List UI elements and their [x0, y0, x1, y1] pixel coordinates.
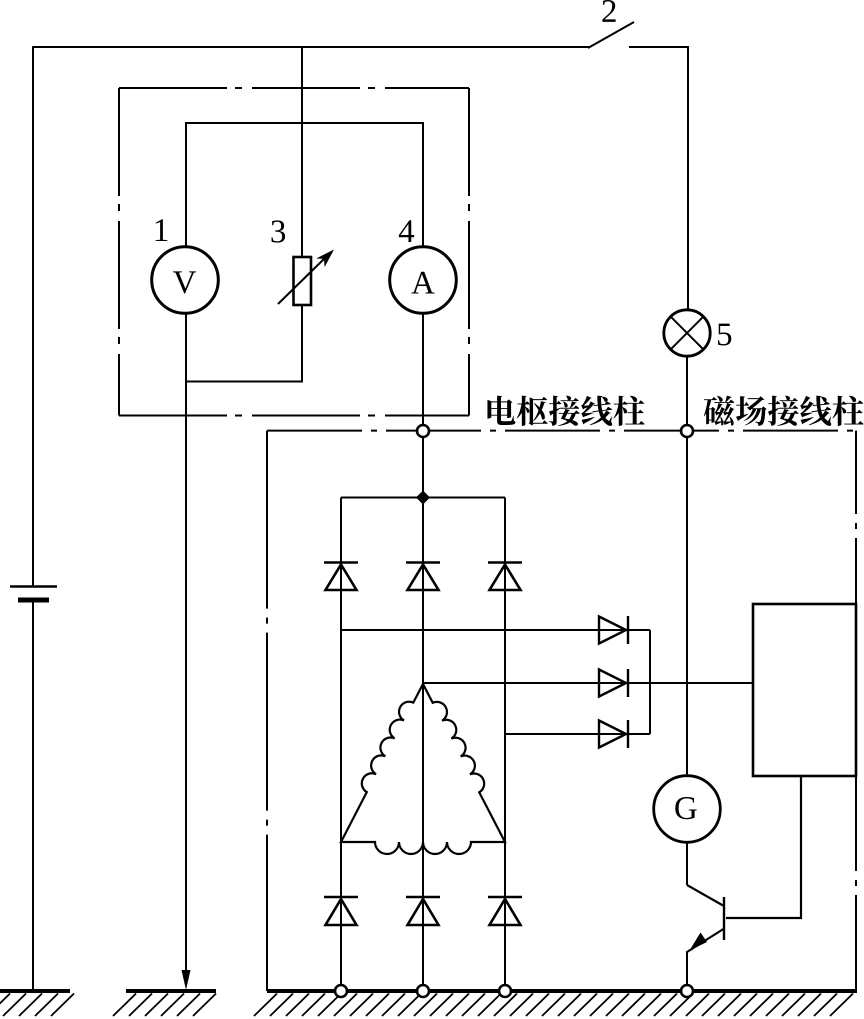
label 4 [399, 220, 414, 242]
stator delta winding [341, 684, 505, 854]
label 2 [602, 0, 615, 22]
rheostat 3 [278, 250, 334, 306]
junction node [416, 491, 430, 505]
label armature-terminal text 电枢接线柱 [487, 396, 644, 426]
wire G to transistor [686, 843, 688, 886]
generator meter G [654, 776, 721, 843]
wire diode trio bus [649, 630, 651, 734]
battery B [10, 587, 57, 601]
terminal armature [417, 425, 429, 437]
diode D8 [406, 897, 440, 925]
transistor emitter [687, 929, 723, 952]
wire voltmeter down [185, 314, 187, 975]
wire rheostat feed [301, 47, 303, 257]
wire battery feed [32, 46, 34, 586]
wire rectifier row bottom [505, 733, 650, 735]
wire rectifier row top [341, 629, 650, 631]
wire emitter to ground [686, 951, 688, 991]
terminal phase U [335, 985, 347, 997]
terminal phase W [499, 985, 511, 997]
diode D6 [599, 720, 628, 748]
terminal field [681, 425, 693, 437]
voltmeter V [152, 247, 219, 314]
diode D1 [324, 563, 358, 591]
lamp 5 [664, 310, 710, 356]
label 3 [271, 220, 285, 242]
label 5 [718, 324, 731, 346]
diode D3 [488, 563, 522, 591]
wire switch to lamp [629, 47, 688, 310]
wire regulator to base [726, 776, 801, 918]
terminal phase V [417, 985, 429, 997]
wire battery to ground [32, 602, 34, 991]
label field-terminal text 磁场接线柱 [704, 396, 864, 426]
terminal emitter ground [681, 985, 693, 997]
ground voltmeter [113, 991, 216, 1016]
wire ammeter to armature terminal and phase V center [422, 314, 424, 992]
wire meter loop top [186, 123, 423, 247]
emitter arrowhead [690, 933, 708, 951]
wire rheostat bottom return [186, 305, 302, 382]
arrowhead voltmeter ground [182, 970, 191, 990]
diode D5 [599, 669, 628, 697]
wire phase bus [341, 497, 505, 499]
diode D7 [324, 897, 358, 925]
diode D2 [406, 563, 440, 591]
regulator box [753, 604, 856, 776]
ground battery [0, 991, 74, 1016]
wire lamp to field terminal and G [686, 357, 688, 776]
dash-dot alternator enclosure [267, 431, 856, 991]
transistor VT base bar [723, 897, 725, 940]
wire phase W [504, 498, 506, 992]
wire rectifier row mid [423, 682, 753, 684]
switch 2 [588, 22, 634, 48]
diode D9 [488, 897, 522, 925]
ammeter A [390, 247, 457, 314]
wire top bus [33, 46, 589, 48]
transistor collector [687, 885, 723, 906]
dash-dot instrument enclosure [119, 88, 469, 416]
diode D4 [599, 616, 628, 644]
ground main hatching [254, 994, 853, 1017]
ground main bar [267, 989, 857, 993]
label 1 [156, 219, 168, 241]
wire phase U [340, 498, 342, 992]
